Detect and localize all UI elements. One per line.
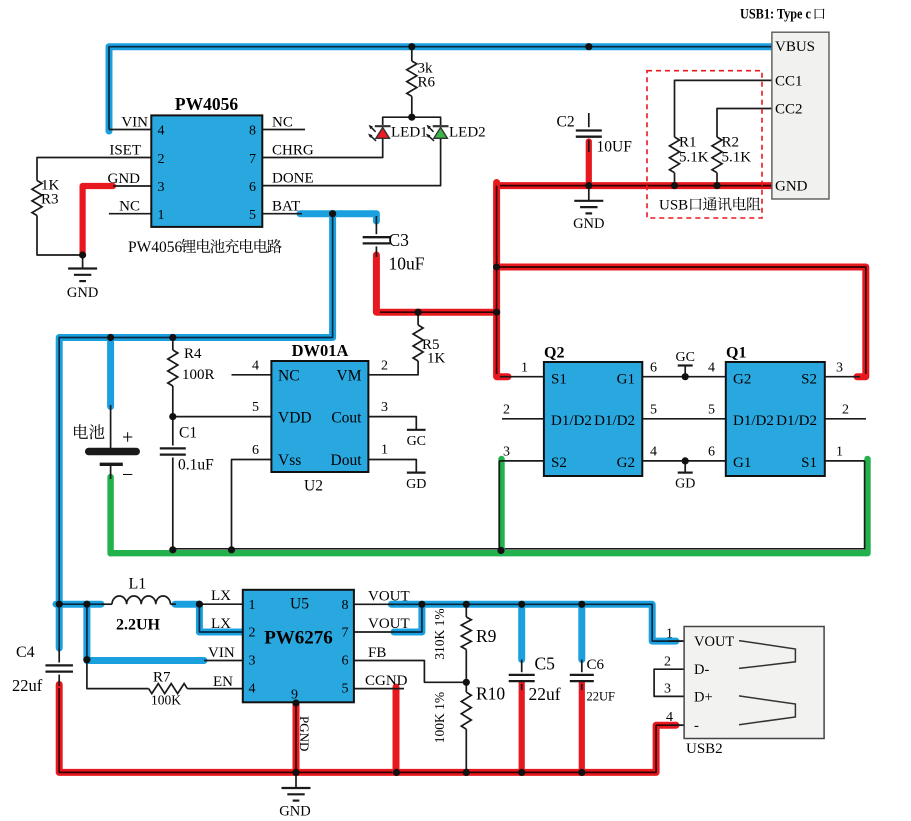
- svg-text:8: 8: [342, 598, 349, 613]
- svg-text:6: 6: [252, 443, 259, 458]
- svg-text:DW01A: DW01A: [292, 341, 349, 360]
- svg-text:G1: G1: [733, 455, 751, 471]
- wire bottom green bus: [111, 459, 868, 553]
- wire red branch to Q1 S2: [497, 267, 866, 377]
- svg-text:PW4056: PW4056: [128, 239, 183, 256]
- wire DONE wire: [262, 139, 440, 186]
- svg-text:5: 5: [342, 682, 349, 697]
- svg-text:D1/D2: D1/D2: [594, 413, 635, 429]
- svg-text:6: 6: [342, 654, 349, 669]
- wire C6 blue drop: [578, 604, 585, 659]
- label USB port communication resistor: [659, 197, 761, 214]
- svg-text:D1/D2: D1/D2: [733, 413, 774, 429]
- wire L1 input blue: [56, 601, 101, 608]
- connector USB1 Type-C: [772, 32, 829, 199]
- svg-text:2.2UH: 2.2UH: [116, 617, 161, 634]
- svg-text:2: 2: [664, 655, 671, 670]
- svg-text:Q1: Q1: [726, 345, 746, 362]
- wire PGND red drop: [293, 703, 300, 773]
- capacitor C1: [160, 425, 214, 474]
- resistor R2: [712, 135, 751, 173]
- wire R5 top lead: [417, 312, 419, 325]
- svg-text:Vss: Vss: [278, 452, 301, 469]
- wire battery- green drop: [107, 477, 113, 553]
- capacitor C4: [12, 644, 73, 695]
- wire BAT pin stub: [262, 213, 302, 215]
- svg-text:PGND: PGND: [297, 716, 312, 751]
- svg-text:GND: GND: [775, 179, 808, 195]
- wire R7 to EN pin: [187, 688, 243, 690]
- svg-text:10UF: 10UF: [597, 139, 633, 156]
- svg-text:C5: C5: [535, 654, 556, 674]
- wire C6 red drop: [579, 681, 585, 772]
- svg-text:CGND: CGND: [365, 673, 408, 689]
- wire R2 bottom lead: [716, 173, 718, 186]
- wire R2 to CC2: [717, 109, 772, 138]
- resistor R4: [168, 346, 215, 386]
- wire C3 red drop and branch: [376, 255, 496, 312]
- wire Q2 S2 green drop: [499, 459, 501, 551]
- wire VOUT net blue rail to USB2 pin1: [391, 604, 684, 641]
- svg-text:3: 3: [249, 654, 256, 669]
- wire Q1 D1/D2 right stub: [825, 418, 866, 420]
- wire VDD wire: [173, 416, 272, 418]
- svg-text:R3: R3: [41, 192, 59, 208]
- LED LED1: [368, 125, 428, 141]
- op-amp U1 PW4056 charger IC: [151, 94, 262, 227]
- label PGND rotated: [297, 716, 312, 751]
- svg-text:3: 3: [836, 361, 843, 376]
- svg-text:VOUT: VOUT: [694, 634, 734, 650]
- svg-text:5: 5: [252, 400, 259, 415]
- svg-text:R6: R6: [418, 75, 436, 91]
- wire R4 top lead: [172, 338, 174, 351]
- svg-text:4: 4: [249, 682, 256, 697]
- svg-text:22UF: 22UF: [587, 690, 616, 704]
- wire C1 bottom lead: [172, 458, 174, 550]
- svg-text:GD: GD: [406, 477, 426, 492]
- wire R6 top lead: [411, 47, 413, 61]
- svg-text:S2: S2: [801, 372, 817, 388]
- wire VIN blue: [87, 604, 204, 660]
- svg-text:NC: NC: [278, 368, 300, 385]
- svg-text:CC1: CC1: [775, 73, 803, 89]
- svg-text:7: 7: [249, 152, 256, 167]
- svg-text:LED1: LED1: [391, 125, 428, 141]
- svg-text:8: 8: [249, 124, 256, 139]
- wire Q2 S1 stub: [500, 376, 544, 378]
- svg-text:D1/D2: D1/D2: [776, 413, 817, 429]
- wire PW4056 GND pin red stub: [83, 186, 113, 255]
- wire R3 bottom to GND junction: [37, 216, 83, 256]
- svg-text:2: 2: [158, 152, 165, 167]
- wire C3 bottom lead: [375, 246, 377, 257]
- wire Cout wire: [368, 417, 416, 430]
- svg-text:G2: G2: [617, 455, 635, 471]
- wire C2 top lead: [588, 113, 590, 127]
- svg-text:5: 5: [650, 403, 657, 418]
- svg-text:5.1K: 5.1K: [722, 150, 752, 166]
- label Q2 pin numbers: [503, 361, 657, 460]
- wire C5 blue drop: [518, 604, 525, 659]
- wire USB2 pin1 stub: [668, 640, 684, 642]
- svg-text:NC: NC: [119, 199, 140, 215]
- svg-text:1: 1: [836, 445, 843, 460]
- svg-text:100K 1%: 100K 1%: [432, 692, 447, 743]
- capacitor C3: [363, 230, 425, 274]
- label PW6276 pin names: [208, 588, 410, 690]
- svg-text:EN: EN: [213, 674, 233, 690]
- wire Q1 S1 stub: [825, 460, 865, 462]
- svg-text:C6: C6: [587, 657, 605, 673]
- svg-text:PW4056: PW4056: [175, 94, 238, 114]
- svg-text:ISET: ISET: [109, 143, 141, 159]
- svg-text:-: -: [694, 718, 699, 734]
- svg-text:0.1uF: 0.1uF: [178, 457, 214, 474]
- wire R6 bottom lead: [411, 96, 413, 117]
- box USB communication resistors dashed: [647, 71, 762, 218]
- resistor R10: [432, 684, 506, 744]
- wire C2 red drop: [586, 142, 592, 186]
- svg-text:VIN: VIN: [208, 645, 235, 661]
- ground symbol GND (C2): [573, 201, 604, 232]
- capacitor C5: [509, 654, 561, 705]
- transistor Q2 dual MOSFET: [544, 345, 642, 477]
- svg-text:3: 3: [664, 682, 671, 697]
- wire D1/D2 mid wire: [642, 418, 726, 420]
- wire FB wire: [354, 661, 466, 683]
- wire R10 leads: [465, 682, 467, 772]
- resistor R5: [413, 325, 445, 367]
- wire R4 bottom to VDD: [172, 386, 174, 417]
- svg-text:VBUS: VBUS: [775, 39, 815, 55]
- svg-text:LED2: LED2: [449, 125, 486, 141]
- wire Q1 S2 stub: [825, 376, 860, 378]
- wire EN wire: [87, 661, 149, 689]
- wire GND pin stub black: [113, 185, 151, 187]
- svg-text:4: 4: [650, 445, 657, 460]
- wire G2-G1 wire: [642, 460, 726, 462]
- svg-text:LX: LX: [211, 616, 231, 632]
- label Q1 pin numbers: [708, 361, 849, 460]
- wire NC pin8 stub: [262, 129, 305, 131]
- svg-text:5.1K: 5.1K: [679, 150, 709, 166]
- svg-text:GC: GC: [407, 434, 426, 449]
- svg-text:3: 3: [158, 180, 165, 195]
- svg-text:4: 4: [252, 359, 259, 374]
- wire battery- stem: [110, 464, 112, 479]
- svg-text:C4: C4: [16, 644, 35, 661]
- svg-text:100R: 100R: [182, 367, 215, 383]
- svg-text:VOUT: VOUT: [368, 589, 410, 605]
- svg-text:VOUT: VOUT: [368, 616, 410, 632]
- svg-text:22uf: 22uf: [12, 676, 43, 695]
- svg-text:CC2: CC2: [775, 102, 803, 118]
- wire VOUT7 stub: [354, 631, 394, 633]
- wire LED top bar: [383, 117, 441, 125]
- svg-text:2: 2: [842, 403, 849, 418]
- svg-text:GD: GD: [675, 477, 695, 492]
- wire LX1 stub: [199, 603, 242, 605]
- wire NC DW01A stub: [232, 374, 272, 376]
- svg-text:R4: R4: [184, 346, 202, 362]
- svg-text:GC: GC: [675, 350, 694, 365]
- wire Vss wire: [232, 460, 272, 550]
- wire GC tick: [684, 366, 686, 377]
- resistor R1: [670, 135, 709, 173]
- svg-text:C1: C1: [179, 425, 197, 442]
- svg-text:S1: S1: [551, 372, 567, 388]
- wire C2 GND stem: [588, 186, 590, 201]
- wire GND top bus red: [497, 182, 774, 189]
- svg-text:VDD: VDD: [278, 410, 312, 427]
- svg-text:4: 4: [666, 710, 673, 725]
- label PW4056 pin names: [108, 115, 314, 215]
- svg-text:L1: L1: [129, 576, 147, 593]
- svg-text:R2: R2: [722, 135, 740, 151]
- wire USB2 D-/D+ loop: [654, 669, 684, 696]
- svg-text:1: 1: [381, 443, 388, 458]
- wire Dout wire: [368, 460, 416, 473]
- wire C4 top lead: [58, 647, 60, 663]
- connector USB2 type-A: [684, 627, 824, 739]
- svg-text:D-: D-: [694, 662, 709, 678]
- svg-text:GND: GND: [573, 216, 604, 232]
- svg-text:2: 2: [381, 359, 388, 374]
- svg-text:2: 2: [249, 626, 256, 641]
- wire ISET wire to R3: [37, 158, 151, 181]
- wire Q2 D1/D2 stub: [502, 418, 544, 420]
- wire VBUS net blue: VIN vertical + top rail to USB1: [109, 47, 774, 131]
- resistor R9: [432, 608, 497, 659]
- svg-text:1: 1: [521, 361, 528, 376]
- svg-text:D+: D+: [694, 690, 713, 706]
- wire battery+ blue drop: [107, 338, 114, 407]
- svg-text:GND: GND: [279, 804, 310, 820]
- svg-text:D1/D2: D1/D2: [551, 413, 592, 429]
- op-amp U2 DW01A protection IC: [271, 341, 368, 495]
- net stub GD (Dout): [406, 473, 426, 492]
- wire BAT net blue: pin5 to C3 and down-left rail: [59, 214, 376, 648]
- resistor R7: [149, 670, 188, 708]
- wire R1 bottom lead: [674, 173, 676, 186]
- wire C6 leads: [581, 660, 583, 691]
- svg-text:100K: 100K: [151, 693, 181, 708]
- wire CGND red drop: [393, 687, 400, 772]
- wire VOUT8 stub: [354, 603, 394, 605]
- wire L1 leads: [101, 603, 176, 605]
- wire C5 leads: [521, 660, 523, 691]
- transistor Q1 dual MOSFET: [726, 345, 825, 477]
- svg-text:1: 1: [158, 208, 165, 223]
- svg-text:R7: R7: [153, 670, 171, 686]
- svg-text:C2: C2: [557, 114, 575, 131]
- wire CGND stub: [354, 688, 404, 690]
- svg-text:310K 1%: 310K 1%: [432, 608, 447, 659]
- wire battery+ stem: [110, 405, 112, 448]
- svg-text:7: 7: [342, 626, 349, 641]
- wire R9 leads: [465, 604, 467, 682]
- svg-text:USB2: USB2: [686, 741, 723, 757]
- svg-text:GND: GND: [67, 285, 98, 301]
- net stub GC (Q1/Q2 gate): [675, 350, 694, 366]
- resistor R3: [32, 178, 60, 216]
- svg-text:6: 6: [650, 361, 657, 376]
- svg-text:4: 4: [158, 124, 165, 139]
- op-amp U5 PW6276 boost IC: [243, 590, 354, 703]
- svg-text:1: 1: [249, 598, 256, 613]
- svg-text:DONE: DONE: [272, 171, 314, 187]
- svg-text:22uf: 22uf: [529, 684, 561, 704]
- wire LX blue: L1 out to pins 1-2: [175, 604, 244, 632]
- svg-text:10uF: 10uF: [389, 254, 425, 274]
- wire C4 bottom lead: [58, 675, 60, 686]
- wire GD tick: [684, 461, 686, 473]
- caption PW4056 charging circuit: [128, 239, 282, 256]
- svg-text:4: 4: [708, 361, 715, 376]
- svg-text:BAT: BAT: [272, 199, 300, 215]
- LED LED2: [426, 125, 486, 141]
- wire bottom GND bus red: [59, 685, 684, 773]
- svg-text:R9: R9: [476, 626, 497, 646]
- svg-text:S2: S2: [551, 455, 567, 471]
- wire R3 GND stem: [82, 255, 84, 268]
- wire VIN stub PW6276: [204, 660, 243, 662]
- capacitor C2: [557, 114, 633, 156]
- wire C5 red drop: [519, 681, 525, 772]
- svg-text:NC: NC: [272, 115, 293, 131]
- svg-text:S1: S1: [801, 455, 817, 471]
- label DW01A pin numbers: [252, 359, 388, 459]
- wire VIN pin stub: [109, 129, 151, 131]
- svg-text:3: 3: [503, 445, 510, 460]
- wire C1 top lead: [172, 417, 174, 446]
- svg-text:Q2: Q2: [544, 345, 564, 362]
- svg-text:2: 2: [503, 403, 510, 418]
- wire R1 to CC1: [675, 80, 773, 137]
- wire Q2 S2 stub: [499, 460, 544, 462]
- svg-text:GND: GND: [108, 171, 141, 187]
- svg-text:−: −: [122, 464, 133, 486]
- label USB2: [686, 741, 723, 757]
- resistor R6: [407, 61, 436, 97]
- svg-text:VM: VM: [337, 368, 362, 385]
- svg-text:Dout: Dout: [331, 452, 363, 469]
- svg-text:USB1: Type c: USB1: Type c: [740, 7, 811, 23]
- wire USB2 pin4 stub: [668, 724, 684, 726]
- svg-text:USB: USB: [659, 198, 688, 214]
- wire C3 top lead: [375, 216, 377, 234]
- svg-text:FB: FB: [368, 645, 386, 661]
- svg-text:VIN: VIN: [121, 115, 148, 131]
- svg-text:5: 5: [708, 403, 715, 418]
- wire PGND GND stem: [295, 772, 297, 787]
- svg-text:1: 1: [666, 627, 673, 642]
- ground symbol GND (PGND): [279, 788, 310, 820]
- battery BT1 电池: [74, 424, 136, 486]
- inductor L1: [112, 576, 170, 634]
- svg-text:5: 5: [249, 208, 256, 223]
- svg-text:PW6276: PW6276: [264, 628, 333, 649]
- net stub GD (Q1/Q2 gate): [675, 473, 695, 492]
- wire NC pin1 stub: [109, 213, 151, 215]
- svg-text:LX: LX: [211, 588, 231, 604]
- svg-text:CHRG: CHRG: [272, 143, 314, 159]
- svg-text:G1: G1: [617, 372, 635, 388]
- svg-text:G2: G2: [733, 372, 751, 388]
- svg-text:3: 3: [381, 400, 388, 415]
- svg-text:1K: 1K: [427, 351, 446, 367]
- ground symbol GND (R3): [67, 269, 98, 302]
- wire red vertical bus: [497, 183, 508, 377]
- svg-text:R1: R1: [679, 135, 697, 151]
- svg-text:Cout: Cout: [331, 410, 362, 427]
- svg-text:C3: C3: [389, 230, 410, 250]
- svg-text:+: +: [122, 427, 133, 449]
- wire C2 bottom lead: [588, 140, 590, 152]
- svg-text:U2: U2: [304, 478, 323, 495]
- wire CHRG wire: [262, 139, 382, 158]
- svg-text:R10: R10: [476, 684, 505, 704]
- net stub GC (Cout): [407, 430, 426, 449]
- wire VOUT pin7 blue jog: [394, 604, 422, 632]
- wire R5 bottom to VM: [368, 361, 418, 375]
- label USB2 pin numbers: [664, 627, 673, 726]
- capacitor C6: [570, 657, 615, 704]
- svg-text:U5: U5: [290, 596, 309, 613]
- svg-text:6: 6: [708, 445, 715, 460]
- wire G1-G2 wire: [642, 376, 726, 378]
- label USB1: Type c: [740, 7, 825, 23]
- svg-text:6: 6: [249, 180, 256, 195]
